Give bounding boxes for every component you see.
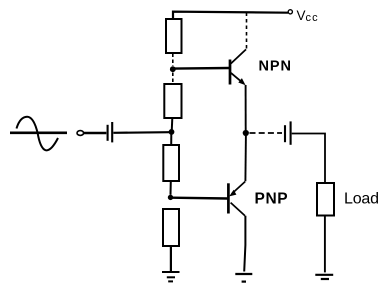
transistor Q2 PNP: base bar bbox=[227, 183, 230, 213]
wire: R2 to input node bbox=[171, 118, 174, 130]
ground (load) bbox=[315, 275, 333, 279]
capacitor C2 (output coupling) bbox=[285, 121, 291, 144]
ground (left bias chain) bbox=[162, 272, 180, 281]
wire: output node to capacitor C2 (dashed) bbox=[250, 132, 283, 134]
wire: NPN collector to top rail (dashed) bbox=[246, 13, 248, 49]
wire: capacitor C1 to input node bbox=[113, 131, 169, 134]
svg-text:NPN: NPN bbox=[259, 59, 292, 75]
transistor Q1 NPN: emitter with arrow bbox=[231, 73, 246, 86]
wire: terminal to capacitor C1 bbox=[84, 132, 107, 134]
wire: PNP base node to PNP base bbox=[172, 196, 227, 199]
wire: R1 to node A (dashed) bbox=[172, 54, 174, 67]
transistor Q1 NPN: collector bbox=[231, 49, 246, 63]
svg-text:Load: Load bbox=[344, 191, 379, 208]
capacitor C1 (input coupling) bbox=[108, 122, 113, 142]
svg-text:Vcc: Vcc bbox=[297, 8, 319, 24]
wire: node A to NPN base bbox=[174, 67, 230, 70]
resistor R3 bbox=[163, 145, 179, 181]
svg-text:PNP: PNP bbox=[255, 191, 289, 208]
node A (NPN base node) bbox=[170, 66, 176, 72]
output node bbox=[243, 130, 249, 136]
wire: capacitor C2 to load bbox=[292, 134, 325, 184]
transistor Q1 NPN: base bar bbox=[229, 60, 232, 85]
transistor Q2 PNP: emitter with arrow bbox=[229, 182, 245, 197]
wire: input node to R3 bbox=[170, 135, 172, 146]
wire: R4 to ground bbox=[170, 246, 172, 272]
wire: node A to R2 (dashed) bbox=[172, 73, 174, 85]
input terminal bbox=[77, 131, 84, 136]
wire: NPN emitter to output node bbox=[245, 85, 247, 130]
wire: top supply rail to Vcc bbox=[173, 12, 288, 19]
resistor R4 (lower bias) bbox=[163, 209, 179, 246]
wire: PNP collector to ground bbox=[244, 216, 245, 272]
PNP base node bbox=[168, 195, 173, 200]
sine wave source bbox=[10, 117, 67, 151]
wire: load to ground bbox=[324, 216, 326, 273]
input node bbox=[169, 129, 175, 135]
load resistor RL bbox=[317, 183, 334, 216]
transistor Q2 PNP: collector bbox=[231, 203, 245, 216]
ground (PNP collector) bbox=[235, 274, 252, 282]
wire: R3 to PNP base node bbox=[170, 181, 172, 195]
Vcc terminal bbox=[288, 10, 292, 14]
resistor R2 bbox=[164, 84, 181, 118]
resistor R1 (upper bias) bbox=[166, 19, 182, 53]
wire: output node to PNP emitter bbox=[244, 136, 247, 181]
